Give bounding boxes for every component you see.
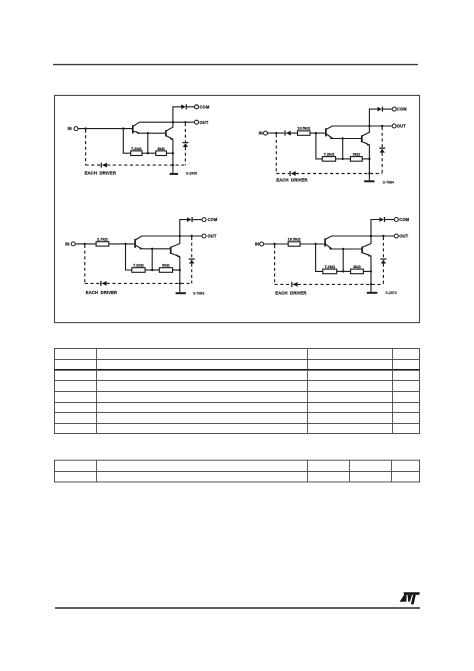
svg-text:2.7kΩ: 2.7kΩ [97, 236, 108, 241]
circuit ULN2002A transistor Q2 [361, 135, 363, 142]
table 2 outer border [55, 460, 420, 482]
circuit ULN2002A terminal OUT [392, 124, 396, 128]
circuit ULN2004A node ground junction [370, 283, 372, 285]
circuit ULN2002A wire diode to resistor [291, 132, 298, 134]
circuit ULN2003A node ground junction [179, 282, 181, 284]
circuit ULN2002A wire Q1 emitter to Q2 base [333, 138, 362, 140]
circuit ULN2002A node emitter-resistor junction [368, 158, 370, 160]
circuit ULN2001A dashed boundary vertical [85, 130, 87, 166]
circuit ULN2004A transistor Q1 [324, 238, 326, 246]
circuit ULN2004A wire Q1 emitter to Q2 base [332, 248, 362, 250]
circuit ULN2002A node input-boundary junction [275, 132, 277, 134]
circuit ULN2002A transistor Q1 [325, 128, 327, 136]
svg-text:OUT: OUT [200, 120, 209, 125]
circuit ULN2004A wire R2 to emitter rail [363, 270, 371, 272]
circuit ULN2002A wire to OUT terminal [369, 125, 392, 127]
circuit ULN2002A clamp diode [379, 148, 385, 149]
circuit ULN2002A resistor R2 3k&#937; [350, 157, 362, 162]
circuit ULN2004A wire base drop to R1 [316, 244, 323, 271]
circuit ULN2003A clamp diode [189, 258, 195, 259]
circuit ULN2003A resistor R2 3k&#937; [159, 268, 172, 273]
svg-text:COM: COM [208, 217, 218, 222]
circuit ULN2004A ground [370, 284, 372, 291]
circuit ULN2001A node clamp junction [184, 121, 186, 123]
circuit ULN2004A dashed boundary vertical [274, 245, 276, 284]
circuit ULN2004A wire collector rail [332, 235, 372, 237]
circuit ULN2004A wire R1 to R2 [337, 270, 351, 272]
svg-text:3kΩ: 3kΩ [157, 146, 164, 151]
circuit ULN2001A terminal COM [195, 105, 199, 109]
circuit ULN2003A dashed boundary vertical [84, 245, 86, 284]
svg-text:S-7984: S-7984 [383, 180, 394, 184]
circuit ULN2002A wire IN to base network [267, 132, 284, 134]
circuit ULN2001A node input-boundary junction [84, 127, 86, 129]
circuit ULN2002A wire R2 to emitter rail [362, 158, 369, 160]
circuit ULN2003A wire R2 to emitter rail [173, 269, 180, 271]
svg-text:10.5kΩ: 10.5kΩ [288, 236, 301, 241]
circuit ULN2001A node interbase junction [147, 132, 149, 134]
circuit ULN2003A resistor R1 7.2k&#937; [132, 268, 145, 273]
circuit ULN2003A wire Q2 emitter to ground rail [179, 256, 181, 283]
circuit ULN2002A resistor R1 7.2k&#937; [322, 157, 335, 162]
circuit ULN2003A ground [179, 283, 181, 292]
circuit ULN2003A transistor Q1 [134, 239, 136, 248]
circuit ULN2003A node input-boundary junction [84, 243, 86, 245]
circuit ULN2002A dashed boundary vertical [275, 134, 277, 173]
circuit ULN2003A wire interbase node to resistor node [151, 249, 153, 270]
svg-text:OUT: OUT [397, 124, 406, 129]
circuit ULN2001A wire collector rail [139, 121, 173, 123]
circuit ULN2003A input resistor 2.7k&#937; [96, 242, 109, 246]
top rule [53, 64, 418, 66]
circuit ULN2004A dashed boundary horizontal [275, 283, 291, 285]
circuit ULN2004A dashed wire OUT to clamp diode [382, 237, 384, 258]
svg-text:7.2kΩ: 7.2kΩ [133, 263, 144, 268]
svg-text:IN: IN [68, 126, 72, 131]
circuit ULN2003A wire resistor to Q1 base [109, 243, 135, 245]
circuit ULN2001A dashed boundary horizontal [86, 164, 101, 166]
circuit ULN2002A node ground junction [368, 172, 370, 174]
circuit ULN2004A clamp diode [380, 258, 386, 259]
circuit ULN2001A node collector junction [172, 121, 174, 123]
circuit ULN2001A wire R1 to R2 [142, 152, 156, 154]
circuit ULN2003A wire IN to base network [75, 243, 96, 245]
circuit ULN2003A wire diode to COM terminal [193, 219, 202, 221]
circuit ULN2003A transistor Q2 [170, 247, 172, 255]
circuit ULN2001A wire to OUT terminal [173, 121, 195, 123]
circuit ULN2002A input diode [284, 131, 285, 136]
svg-text:7.2kΩ: 7.2kΩ [131, 146, 142, 151]
circuit ULN2004A boundary diode [291, 282, 292, 287]
circuit ULN2003A node emitter-resistor junction [179, 269, 181, 271]
circuit ULN2001A boundary diode [101, 163, 102, 168]
svg-text:COM: COM [397, 107, 407, 112]
svg-text:COM: COM [399, 217, 409, 222]
circuit ULN2003A diode to COM [187, 217, 191, 222]
svg-text:3kΩ: 3kΩ [353, 264, 360, 269]
circuit ULN2004A wire diode to COM terminal [385, 219, 394, 221]
svg-text:COM: COM [200, 104, 210, 109]
circuit ULN2004A node collector junction [370, 235, 372, 237]
circuit ULN2004A terminal OUT [394, 234, 398, 238]
svg-text:S-2669: S-2669 [186, 172, 197, 176]
circuit ULN2001A terminal OUT [195, 120, 199, 124]
circuit ULN2004A node clamp junction [382, 235, 384, 237]
circuit ULN2001A wire base drop to R1 [123, 129, 130, 154]
circuit ULN2002A dashed wire OUT to clamp diode [381, 127, 383, 147]
circuit ULN2002A boundary diode [289, 171, 290, 176]
circuit ULN2001A diode to COM [181, 104, 185, 109]
circuit ULN2003A wire to OUT terminal [180, 235, 202, 237]
circuit ULN2002A terminal COM [392, 107, 396, 111]
table 1 column lines [96, 349, 98, 434]
circuit ULN2002A ground [368, 174, 370, 181]
circuit ULN2004A wire to OUT terminal [371, 235, 394, 237]
circuit ULN2003A wire collector to COM diode [180, 220, 187, 236]
circuit ULN2004A resistor R1 7.2k&#937; [323, 269, 337, 274]
circuit ULN2004A input resistor 10.5k&#937; [288, 242, 300, 246]
circuit ULN2002A node clamp junction [381, 125, 383, 127]
circuit ULN2002A node interbase junction [342, 137, 344, 139]
circuit ULN2004A dashed wire clamp diode to ground rail [382, 264, 384, 285]
table 2 column lines [96, 460, 98, 482]
svg-text:EACH DRIVER: EACH DRIVER [275, 291, 307, 296]
circuit ULN2004A diode to COM [379, 217, 383, 222]
circuit ULN2001A resistor R1 7.2k&#937; [131, 151, 142, 156]
svg-text:7.2kΩ: 7.2kΩ [324, 152, 335, 157]
schematic frame box [55, 95, 420, 322]
circuit ULN2001A clamp diode [182, 142, 188, 143]
svg-text:3kΩ: 3kΩ [162, 263, 169, 268]
circuit ULN2002A input resistor 10.5k&#937; [298, 131, 311, 135]
circuit ULN2002A diode to COM [377, 107, 381, 112]
circuit ULN2001A wire collector to COM diode [173, 107, 181, 122]
circuit ULN2003A dashed boundary horizontal [85, 282, 100, 284]
circuit ULN2002A dashed boundary horizontal [276, 173, 289, 175]
circuit ULN2004A wire collector to COM diode [371, 220, 379, 237]
circuit ULN2002A wire base drop to R1 [316, 133, 322, 159]
circuit ULN2003A wire base drop to R1 [126, 244, 132, 270]
circuit ULN2001A node base junction [122, 127, 124, 129]
svg-text:3kΩ: 3kΩ [353, 152, 360, 157]
svg-text:7.2kΩ: 7.2kΩ [324, 264, 335, 269]
circuit ULN2002A dashed wire clamp diode to ground rail [381, 153, 383, 174]
circuit ULN2004A node interbase junction [342, 248, 344, 250]
svg-text:S-7983: S-7983 [193, 291, 204, 295]
circuit ULN2003A terminal OUT [202, 234, 206, 238]
circuit ULN2004A wire IN to base network [264, 243, 289, 245]
circuit ULN2003A terminal COM [202, 218, 206, 222]
circuit ULN2003A node collector junction [179, 235, 181, 237]
bottom rule [55, 607, 420, 609]
circuit ULN2001A transistor Q1 [132, 125, 134, 133]
circuit ULN2003A node base junction [124, 243, 126, 245]
circuit ULN2003A boundary diode [100, 281, 101, 286]
circuit ULN2002A wire interbase node to resistor node [342, 139, 344, 159]
svg-text:EACH DRIVER: EACH DRIVER [86, 290, 118, 295]
circuit ULN2004A wire Q2 emitter to ground rail [370, 256, 372, 285]
circuit ULN2004A node input-boundary junction [273, 243, 275, 245]
circuit ULN2002A wire R1 to R2 [336, 158, 351, 160]
circuit ULN2001A wire IN to base network [78, 128, 133, 130]
circuit ULN2001A transistor Q2 [165, 130, 167, 136]
circuit ULN2003A dashed wire OUT to clamp diode [191, 237, 193, 258]
svg-text:S-2674: S-2674 [385, 291, 396, 295]
circuit ULN2002A wire collector to COM diode [369, 109, 377, 126]
circuit ULN2001A wire Q1 emitter to Q2 base [139, 132, 166, 134]
circuit ULN2002A node base junction [315, 132, 317, 134]
circuit ULN2004A node emitter-resistor junction [370, 270, 372, 272]
circuit ULN2003A node interbase junction [151, 248, 153, 250]
circuit ULN2004A resistor R2 3k&#937; [351, 269, 364, 274]
circuit ULN2003A wire Q1 emitter to Q2 base [142, 248, 171, 250]
circuit ULN2001A dashed wire OUT to clamp diode [184, 123, 186, 142]
circuit ULN2003A wire R1 to R2 [145, 269, 159, 271]
circuit ULN2004A terminal COM [394, 218, 398, 222]
circuit ULN2001A resistor R2 3k&#937; [156, 151, 167, 156]
circuit ULN2001A node emitter-resistor junction [172, 152, 174, 154]
circuit ULN2002A node collector junction [368, 125, 370, 127]
circuit ULN2002A wire resistor to Q1 base [310, 132, 326, 134]
ST logo [400, 592, 420, 604]
svg-text:OUT: OUT [208, 234, 217, 239]
circuit ULN2001A node ground junction [172, 164, 174, 166]
circuit ULN2003A dashed wire clamp diode to ground rail [191, 264, 193, 284]
table 1 row lines [55, 359, 420, 361]
circuit ULN2001A ground [172, 165, 174, 173]
circuit ULN2001A wire Q2 emitter to ground rail [172, 139, 174, 165]
circuit ULN2001A wire diode to COM terminal [187, 106, 195, 108]
circuit ULN2004A wire interbase node to resistor node [342, 249, 344, 271]
svg-text:IN: IN [259, 131, 263, 136]
svg-text:EACH DRIVER: EACH DRIVER [85, 171, 117, 176]
circuit ULN2003A wire collector rail [142, 235, 180, 237]
table 1 outer border [55, 349, 420, 434]
table 2 row line [55, 471, 420, 473]
svg-text:IN: IN [255, 242, 259, 247]
circuit ULN2004A node base junction [314, 243, 316, 245]
circuit ULN2001A wire R2 to emitter rail [166, 152, 173, 154]
circuit ULN2002A wire Q2 emitter to ground rail [368, 145, 370, 174]
circuit ULN2002A wire collector rail [332, 125, 369, 127]
circuit ULN2001A dashed wire clamp diode to ground rail [184, 147, 186, 165]
svg-text:EACH DRIVER: EACH DRIVER [276, 178, 308, 183]
svg-text:IN: IN [65, 242, 69, 247]
circuit ULN2001A wire interbase node to resistor node [147, 133, 149, 153]
circuit ULN2002A wire diode to COM terminal [383, 108, 392, 110]
svg-text:OUT: OUT [399, 234, 408, 239]
svg-text:10.5kΩ: 10.5kΩ [297, 126, 310, 131]
circuit ULN2004A transistor Q2 [361, 247, 363, 254]
circuit ULN2003A node clamp junction [191, 235, 193, 237]
circuit ULN2004A wire resistor to Q1 base [300, 243, 325, 245]
